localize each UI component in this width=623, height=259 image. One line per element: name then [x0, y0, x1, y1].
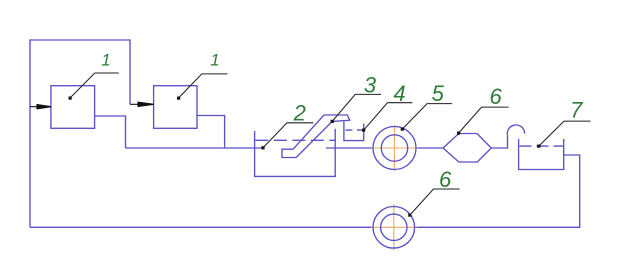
leader label 4 [364, 103, 413, 130]
spout curl into tank 7 [507, 125, 524, 136]
leader label 2 [263, 123, 313, 148]
pump 6 (bottom) crosshair [371, 204, 417, 250]
svg-text:3: 3 [364, 73, 377, 98]
wire: bottom return line right of pump 6 [415, 155, 580, 227]
pump 5 crosshair [372, 125, 418, 171]
wire: box1 output [95, 116, 126, 148]
wire: tank 2 to pump 5 [326, 147, 373, 149]
pump 5 [373, 127, 416, 170]
svg-text:7: 7 [570, 97, 583, 122]
leader label 3 [332, 94, 381, 121]
leader label 6 (filter) [459, 107, 509, 133]
leader label 6 (bottom pump) [410, 189, 460, 215]
tank 7 [519, 139, 564, 170]
arrow into box 1 [30, 105, 51, 109]
svg-text:5: 5 [432, 81, 445, 106]
node dot box 1 [69, 97, 72, 100]
node dot pump 6 bottom [408, 214, 411, 217]
wire: bottom return line left of pump 6 [30, 226, 373, 228]
wire: filter 6 to spout curl [491, 135, 507, 148]
node dot vessel 4 [362, 129, 365, 132]
svg-text:6: 6 [439, 167, 452, 192]
leader label 5 [402, 104, 452, 130]
vessel 4 level dashes [345, 129, 363, 131]
leader label 7 [539, 121, 591, 146]
node dot conveyor 3 [331, 120, 334, 123]
svg-text:1: 1 [210, 51, 219, 70]
vessel 4 [344, 122, 364, 141]
tank 7 liquid level (dashed) [520, 145, 564, 147]
box 1 (first apparatus) [51, 86, 95, 129]
leader label 1 (box 2) [179, 74, 228, 98]
node dot tank 7 [537, 145, 540, 148]
svg-text:4: 4 [393, 81, 405, 106]
svg-text:1: 1 [101, 51, 110, 70]
arrow into box 2 [130, 102, 154, 106]
conveyor 3 inclined chute [293, 115, 350, 158]
wire: return loop left/top [30, 40, 130, 227]
wire: main line to tank 2 [126, 147, 264, 149]
tank 2 liquid level (dashed) [255, 139, 334, 141]
tank 2 [255, 129, 336, 177]
conveyor 3 foot [282, 149, 296, 157]
pump 6 (bottom) [373, 207, 415, 249]
wire: box2 output [197, 116, 225, 149]
svg-text:6: 6 [489, 84, 502, 109]
svg-text:2: 2 [293, 101, 306, 126]
box 1 (second apparatus) [154, 86, 197, 129]
node dot filter 6 [457, 132, 460, 135]
node dot tank 2 [261, 146, 264, 149]
leader label 1 (box 1) [70, 73, 119, 98]
node dot box 2 [177, 97, 180, 100]
node dot pump 5 [401, 128, 404, 131]
filter 6 hexagon [443, 134, 491, 163]
wire: pump 5 to filter 6 [416, 147, 443, 149]
